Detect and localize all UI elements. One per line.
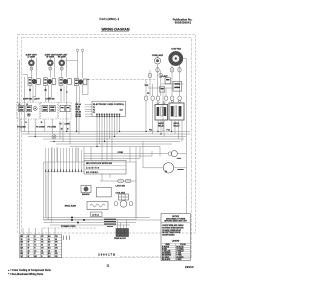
svg-text:20: 20	[55, 239, 57, 241]
svg-text:SURF UNIT: SURF UNIT	[45, 55, 57, 57]
oven indicator light box	[59, 102, 72, 119]
svg-text:L2: L2	[26, 104, 28, 106]
wire bus 6	[56, 143, 172, 145]
svg-text:P3: P3	[93, 112, 95, 114]
svg-text:HI-LIMIT: HI-LIMIT	[161, 76, 169, 78]
infinite switch 3	[59, 78, 71, 85]
wire bus N	[28, 136, 186, 138]
svg-text:LIGHT: LIGHT	[34, 98, 41, 100]
wire: lamp/fan drops	[146, 59, 187, 97]
label: L1 terminal	[91, 212, 103, 217]
cooling fan assembly	[114, 192, 133, 208]
convection fan motor	[169, 51, 183, 65]
svg-text:5995356841: 5995356841	[175, 21, 192, 25]
wire: EOC harness bundle	[97, 118, 120, 161]
wire bus L1	[22, 131, 191, 133]
svg-text:N.O. COM N.C.: N.O. COM N.C.	[86, 172, 99, 174]
extra connector capsules	[148, 73, 162, 77]
ground strap	[107, 226, 113, 228]
svg-text:29903: 29903	[185, 265, 194, 269]
infinite switch 1	[28, 78, 40, 85]
svg-text:LEGEND: LEGEND	[172, 240, 180, 242]
junction row below switches	[29, 79, 88, 93]
label: relay connector tags	[118, 130, 170, 154]
svg-text:W WHITE: W WHITE	[162, 246, 169, 248]
cavity terminal tick row	[46, 170, 82, 173]
svg-text:BU-6B: BU-6B	[75, 116, 81, 118]
svg-text:COLOR: COLOR	[180, 244, 187, 246]
color code table	[20, 235, 62, 258]
svg-text:Y YELLOW: Y YELLOW	[162, 251, 171, 253]
latch switch capsules	[118, 179, 131, 182]
wire: cord drops	[118, 220, 127, 229]
label: P6 connector column	[60, 123, 71, 130]
svg-text:LATCH SW: LATCH SW	[116, 184, 126, 187]
wire: tag leads	[85, 105, 93, 117]
text: publication number block	[173, 18, 193, 25]
EOC inside pin numbers row	[96, 114, 120, 116]
svg-text:TERM BLOCK: TERM BLOCK	[114, 238, 127, 240]
infinite switch 4	[75, 78, 87, 85]
svg-text:16: 16	[41, 239, 43, 241]
wire: bus-to-cavity bundle	[46, 148, 82, 223]
svg-text:BU BLUE: BU BLUE	[176, 246, 183, 248]
svg-text:14: 14	[34, 249, 36, 252]
svg-text:W: W	[28, 253, 30, 255]
svg-text:P PINK: P PINK	[176, 255, 182, 257]
wire: table area ticks	[64, 236, 70, 241]
wire: relay drops	[146, 101, 182, 142]
svg-text:WIRE: WIRE	[166, 244, 170, 246]
svg-text:20: 20	[55, 250, 57, 252]
svg-text:14: 14	[34, 244, 36, 247]
svg-text:RELAY: RELAY	[173, 125, 180, 128]
svg-text:10: 10	[21, 245, 23, 247]
svg-text:* = Non-Illustrated Wiring Par: * = Non-Illustrated Wiring Parts	[8, 273, 44, 276]
svg-text:J3: J3	[67, 129, 69, 131]
svg-text:R RED: R RED	[176, 259, 182, 261]
surface element LF	[28, 58, 34, 70]
supply cord conductors	[104, 219, 116, 224]
svg-text:SENSOR: SENSOR	[82, 194, 90, 196]
wire: knob drops to switch row	[23, 52, 83, 79]
text: WIRING DIAGRAM title	[101, 27, 130, 31]
svg-text:L1 N L2: L1 N L2	[92, 215, 99, 217]
connector circles risers	[76, 49, 83, 51]
wire: extra right verticals	[150, 70, 163, 132]
connector capsules top right	[156, 68, 181, 73]
oven light	[163, 163, 183, 173]
svg-text:10: 10	[21, 250, 23, 252]
broil element box	[87, 202, 108, 210]
svg-text:W WHITE: W WHITE	[176, 257, 183, 259]
svg-text:BEFORE SERVICING UNIT: BEFORE SERVICING UNIT	[164, 221, 187, 223]
svg-text:W: W	[28, 242, 30, 244]
svg-text:SURF UNIT: SURF UNIT	[56, 55, 68, 57]
label: small connector row	[25, 121, 42, 124]
wire: extra switch drops	[33, 61, 80, 102]
lamp component mid-left	[52, 135, 56, 139]
svg-text:W: W	[28, 256, 30, 258]
svg-text:V VIOLET: V VIOLET	[176, 251, 183, 253]
svg-text:P4 CONN: P4 CONN	[17, 125, 26, 128]
svg-text:OVEN SW: OVEN SW	[46, 98, 55, 100]
svg-text:12: 12	[28, 245, 30, 247]
wire bus 4	[43, 138, 184, 140]
wire: switch row outlet drops	[20, 60, 89, 234]
svg-text:18: 18	[48, 245, 50, 247]
svg-text:OVEN LAMP: OVEN LAMP	[152, 54, 164, 57]
svg-text:1 2 3 4 5 6 7 8 9: 1 2 3 4 5 6 7 8 9	[86, 166, 99, 169]
oven sensor	[81, 186, 91, 193]
notes box	[161, 214, 190, 261]
svg-text:GN GREEN: GN GREEN	[162, 253, 171, 255]
oven cavity boundary	[44, 162, 137, 220]
terminal block junctions	[71, 217, 85, 224]
svg-text:P2: P2	[93, 110, 95, 112]
infinite switch 2	[44, 78, 56, 85]
hidden bake element box	[96, 187, 111, 197]
bake relay K1	[155, 102, 168, 120]
svg-text:12: 12	[28, 239, 30, 241]
svg-text:J1: J1	[25, 122, 27, 124]
svg-text:SHARP EDGES: SHARP EDGES	[162, 234, 175, 237]
svg-text:● = Color Coding of Component: ● = Color Coding of Component Parts	[8, 269, 51, 272]
svg-text:FGFL(MNC)-2: FGFL(MNC)-2	[100, 18, 120, 21]
svg-text:CONV FAN: CONV FAN	[171, 48, 181, 51]
EOC pin stubs	[97, 115, 120, 119]
wire: supply lines	[44, 147, 161, 225]
surface element RF	[47, 58, 53, 70]
wire bus 7	[70, 146, 160, 148]
svg-text:296017B: 296017B	[98, 253, 116, 257]
wire: bottom dash line	[120, 255, 161, 257]
wire bus L2	[22, 133, 191, 135]
svg-text:W: W	[28, 247, 30, 249]
svg-text:WIRING DIAGRAM: WIRING DIAGRAM	[102, 27, 130, 31]
svg-text:18: 18	[48, 250, 50, 252]
svg-text:P2 CONN: P2 CONN	[36, 126, 45, 128]
svg-text:16: 16	[41, 245, 43, 247]
svg-text:18: 18	[48, 239, 50, 241]
EOC pin dots	[96, 116, 120, 117]
terminal block TB	[116, 229, 129, 237]
wire: oven ind drops	[77, 101, 80, 134]
svg-text:R RED: R RED	[162, 248, 168, 250]
oven control board EOC	[92, 101, 125, 116]
wire bus 5	[50, 141, 180, 143]
door lock module	[84, 161, 126, 175]
svg-text:ELECTRONIC OVEN CONTROL: ELECTRONIC OVEN CONTROL	[93, 104, 125, 106]
label: switch outlet tags	[29, 90, 62, 92]
svg-text:L1: L1	[19, 104, 21, 106]
wire: long dash-dot feed line	[88, 78, 157, 80]
console inner border	[22, 38, 192, 258]
svg-text:MDL DOOR LOCK MOTOR SW: MDL DOOR LOCK MOTOR SW	[86, 163, 112, 165]
svg-text:BROIL ELEM: BROIL ELEM	[65, 206, 77, 208]
svg-text:BR BROWN: BR BROWN	[162, 255, 172, 257]
oven selector switch box	[41, 102, 58, 119]
svg-text:SURF UNIT: SURF UNIT	[26, 55, 38, 57]
svg-text:SURF IND: SURF IND	[23, 98, 33, 100]
wire: cooling fan feeds	[84, 96, 187, 214]
wire: drops to color table	[23, 228, 55, 235]
wire: light box drops	[21, 119, 70, 144]
svg-text:P6: P6	[60, 123, 62, 125]
wire: lock module leads	[45, 172, 136, 181]
svg-text:20: 20	[55, 245, 57, 247]
svg-text:POWER CORD: POWER CORD	[61, 226, 76, 228]
oven lamp	[154, 56, 160, 64]
svg-text:W: W	[28, 236, 30, 238]
svg-text:14: 14	[34, 238, 36, 241]
svg-text:10: 10	[21, 239, 23, 241]
fuse capsules	[144, 96, 181, 100]
indicator box internals extra	[19, 104, 29, 106]
indicator light assembly box	[17, 102, 40, 119]
wire: dashed chassis bottom left	[43, 227, 96, 229]
svg-text:P5: P5	[147, 93, 149, 95]
svg-text:12: 12	[28, 250, 30, 252]
svg-text:P1: P1	[93, 107, 95, 109]
broil relay K2	[169, 100, 184, 120]
cooling fan motor	[168, 151, 181, 159]
svg-text:J2: J2	[61, 129, 63, 131]
surface element RR	[59, 58, 65, 70]
svg-text:CONN: CONN	[65, 123, 71, 125]
svg-text:16: 16	[41, 250, 43, 252]
oven vent thermostat	[160, 87, 165, 93]
chassis dashed border	[18, 35, 196, 234]
bus junction dots	[35, 131, 173, 147]
thermal switch cluster	[145, 76, 182, 95]
label: wire tags	[75, 103, 81, 118]
